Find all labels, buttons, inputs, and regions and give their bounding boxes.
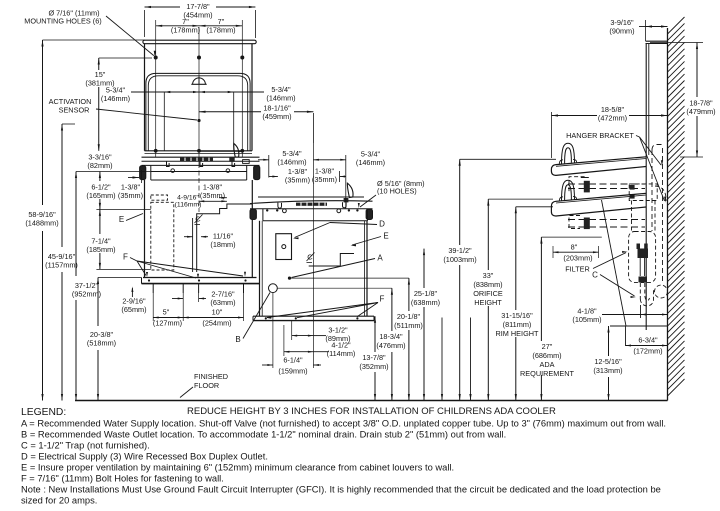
svg-text:(146mm): (146mm)	[101, 94, 130, 103]
svg-text:(952mm): (952mm)	[72, 289, 101, 298]
dim 31-15/16 rim height	[515, 207, 517, 310]
svg-text:F = 7/16" (11mm) Bolt Holes fo: F = 7/16" (11mm) Bolt Holes for fastenin…	[21, 474, 224, 484]
svg-text:HANGER BRACKET: HANGER BRACKET	[566, 131, 634, 140]
in-wall chase	[645, 44, 647, 331]
lower piping dashed	[568, 219, 645, 221]
svg-text:ADA: ADA	[539, 360, 554, 369]
svg-text:ORIFICE: ORIFICE	[473, 289, 503, 298]
svg-text:C: C	[592, 271, 598, 280]
dim 18-3/4	[391, 288, 393, 331]
floor line	[75, 400, 668, 402]
left lower cabinet	[144, 180, 146, 278]
dim 17-7/8 width	[145, 6, 181, 8]
svg-text:8": 8"	[571, 243, 578, 252]
svg-text:RIM HEIGHT: RIM HEIGHT	[496, 329, 540, 338]
supply waste stubs	[152, 284, 154, 293]
zigzag extension	[309, 254, 354, 267]
svg-text:D = Electrical Supply (3) Wire: D = Electrical Supply (3) Wire Recessed …	[21, 452, 268, 462]
svg-text:HEIGHT: HEIGHT	[474, 298, 502, 307]
svg-text:(459mm): (459mm)	[262, 112, 291, 121]
svg-text:A = Recommended Water Supply l: A = Recommended Water Supply location. S…	[21, 419, 666, 429]
svg-text:5": 5"	[163, 308, 170, 317]
svg-text:(127mm): (127mm)	[153, 319, 182, 328]
left apron	[151, 171, 247, 173]
svg-text:(105mm): (105mm)	[572, 315, 601, 324]
left unit top mounting bar	[143, 40, 256, 44]
svg-text:(35mm): (35mm)	[285, 175, 310, 184]
in-wall assembly dashed	[629, 184, 657, 201]
middle bubbler	[347, 183, 353, 197]
svg-text:MOUNTING HOLES (6): MOUNTING HOLES (6)	[24, 17, 101, 26]
middle basin deck	[258, 196, 364, 198]
apron notch left	[278, 203, 282, 209]
in-wall supply pipes dashed	[651, 150, 653, 231]
svg-text:(638mm): (638mm)	[411, 298, 440, 307]
middle centerline	[312, 143, 314, 368]
svg-text:B = Recommended Waste Outlet l: B = Recommended Waste Outlet location. T…	[21, 430, 506, 440]
svg-text:(313mm): (313mm)	[593, 366, 622, 375]
svg-text:(146mm): (146mm)	[356, 158, 385, 167]
svg-text:(811mm): (811mm)	[503, 320, 532, 329]
svg-text:(82mm): (82mm)	[87, 161, 112, 170]
left basin left end cap	[140, 166, 146, 180]
svg-text:SENSOR: SENSOR	[59, 105, 90, 114]
hole column lines	[155, 20, 157, 58]
wall hatching	[668, 17, 685, 34]
middle cabinet bottom flange	[253, 315, 374, 317]
svg-text:(178mm): (178mm)	[206, 26, 235, 35]
svg-text:FLOOR: FLOOR	[194, 381, 219, 390]
svg-text:Note : New Installations Must: Note : New Installations Must Use Ground…	[21, 485, 661, 495]
svg-text:(159mm): (159mm)	[278, 367, 307, 376]
trap dashed	[639, 283, 641, 299]
svg-text:(146mm): (146mm)	[266, 93, 295, 102]
svg-text:(35mm): (35mm)	[200, 191, 225, 200]
middle basin drain grille	[296, 203, 327, 206]
svg-text:F: F	[123, 253, 128, 262]
svg-text:(35mm): (35mm)	[118, 191, 143, 200]
upper unit side profile	[551, 157, 646, 176]
svg-text:(1488mm): (1488mm)	[25, 218, 58, 227]
svg-text:25-1/8": 25-1/8"	[414, 289, 438, 298]
svg-text:(178mm): (178mm)	[171, 26, 200, 35]
middle basin left end cap	[250, 209, 256, 219]
extension A to 20-1/8	[291, 277, 409, 279]
alcove interior reference lines	[163, 92, 165, 151]
svg-text:33": 33"	[483, 271, 494, 280]
svg-text:LEGEND:: LEGEND:	[21, 407, 66, 418]
dim 20-1/8	[408, 278, 410, 311]
F fan leaders	[137, 261, 146, 276]
alcove vent	[191, 83, 206, 85]
activation sensor dot	[197, 119, 200, 122]
svg-text:E = Insure proper ventilation: E = Insure proper ventilation by maintai…	[21, 463, 454, 473]
electrical recess dashed box	[151, 202, 174, 270]
dim 39-1/2	[459, 159, 461, 245]
svg-text:(18mm): (18mm)	[210, 240, 235, 249]
svg-text:D: D	[379, 220, 385, 229]
dim 25-1/8	[423, 249, 425, 288]
water supply dot A	[288, 277, 291, 280]
svg-text:sized for 20 amps.: sized for 20 amps.	[21, 496, 97, 506]
svg-text:(352mm): (352mm)	[359, 362, 388, 371]
svg-text:(472mm): (472mm)	[598, 113, 627, 122]
svg-text:(10 HOLES): (10 HOLES)	[377, 187, 417, 196]
svg-text:(146mm): (146mm)	[277, 157, 306, 166]
svg-text:B: B	[235, 335, 240, 344]
svg-text:(838mm): (838mm)	[473, 280, 502, 289]
middle basin right end cap	[366, 209, 372, 219]
left cabinet step detail	[197, 204, 253, 272]
waste outlet circle B	[269, 284, 278, 293]
lower bubbler side	[562, 180, 575, 201]
svg-text:27": 27"	[542, 342, 553, 351]
mounting holes row2	[154, 149, 158, 153]
svg-text:REQUIREMENT: REQUIREMENT	[520, 369, 574, 378]
svg-text:(686mm): (686mm)	[532, 351, 561, 360]
drain stub tick	[640, 305, 642, 318]
svg-text:(476mm): (476mm)	[376, 341, 405, 350]
svg-text:6-1/4": 6-1/4"	[283, 356, 303, 365]
middle cabinet	[259, 221, 261, 316]
centerline left unit	[198, 27, 200, 163]
dim 33 orifice height	[487, 199, 489, 270]
svg-text:(63mm): (63mm)	[210, 298, 235, 307]
svg-text:(254mm): (254mm)	[202, 319, 231, 328]
dim 13-7/8	[374, 316, 376, 352]
svg-text:(172mm): (172mm)	[633, 347, 662, 356]
svg-text:18-3/4": 18-3/4"	[379, 332, 403, 341]
svg-text:E: E	[119, 215, 124, 224]
dim 27 ADA requirement	[540, 237, 542, 341]
left cabinet bottom flange	[143, 277, 257, 279]
middle electrical box	[276, 234, 292, 260]
svg-text:(65mm): (65mm)	[121, 305, 146, 314]
stub extension ticks	[152, 293, 154, 321]
extension B to 18-3/4	[277, 287, 392, 289]
svg-text:E: E	[383, 232, 388, 241]
svg-text:FILTER: FILTER	[565, 265, 590, 274]
svg-text:(1003mm): (1003mm)	[443, 255, 476, 264]
alcove opening outer	[146, 73, 250, 150]
svg-text:(116mm): (116mm)	[175, 202, 202, 209]
svg-text:13-7/8": 13-7/8"	[362, 353, 386, 362]
apron notch right	[343, 202, 347, 208]
middle basin bolt holes	[283, 209, 287, 213]
svg-text:FINISHED: FINISHED	[194, 372, 228, 381]
svg-text:39-1/2": 39-1/2"	[448, 246, 472, 255]
svg-text:6-3/4": 6-3/4"	[638, 336, 658, 345]
lower unit side profile	[551, 193, 646, 216]
upper piping dashed	[568, 183, 645, 185]
svg-text:(35mm): (35mm)	[312, 175, 337, 184]
svg-text:(479mm): (479mm)	[686, 107, 715, 116]
svg-text:(1157mm): (1157mm)	[45, 260, 78, 269]
svg-text:10": 10"	[212, 308, 223, 317]
dim line 7 inch spacings	[156, 25, 243, 27]
svg-text:31-15/16": 31-15/16"	[501, 311, 533, 320]
svg-text:(203mm): (203mm)	[563, 254, 592, 263]
svg-text:A: A	[377, 254, 383, 263]
svg-text:(185mm): (185mm)	[86, 245, 115, 254]
left basin right end cap	[254, 166, 260, 180]
svg-text:(114mm): (114mm)	[327, 349, 356, 358]
finished floor leader	[180, 387, 193, 398]
svg-text:F: F	[380, 295, 385, 304]
svg-text:REDUCE HEIGHT BY 3 INCHES FOR: REDUCE HEIGHT BY 3 INCHES FOR INSTALLATI…	[187, 406, 556, 417]
svg-text:(511mm): (511mm)	[394, 321, 423, 330]
mounting holes row1	[154, 56, 158, 60]
svg-text:12-5/16": 12-5/16"	[594, 357, 622, 366]
water supply line side	[610, 325, 668, 327]
left basin deck	[145, 150, 253, 152]
extension line mid	[441, 318, 443, 401]
deck tabs	[167, 161, 170, 166]
svg-text:C = 1-1/2" Trap (not furnished: C = 1-1/2" Trap (not furnished).	[21, 441, 150, 451]
deck arrow detail	[200, 150, 243, 152]
svg-text:(518mm): (518mm)	[87, 338, 116, 347]
left basin drain grille	[180, 158, 213, 161]
dim 12-5/16	[608, 326, 610, 356]
wall line	[667, 28, 669, 401]
svg-text:20-1/8": 20-1/8"	[397, 312, 421, 321]
middle apron band	[263, 220, 368, 222]
svg-text:(90mm): (90mm)	[609, 26, 634, 35]
alcove opening inner	[148, 76, 247, 151]
svg-text:4-9/16": 4-9/16"	[177, 195, 199, 202]
extension line mid2	[470, 318, 472, 401]
filter dashed	[629, 232, 656, 283]
svg-text:(165mm): (165mm)	[86, 191, 115, 200]
left bubbler	[234, 143, 239, 157]
upper bubbler side	[562, 143, 575, 164]
left unit cabinet panel	[145, 44, 253, 151]
